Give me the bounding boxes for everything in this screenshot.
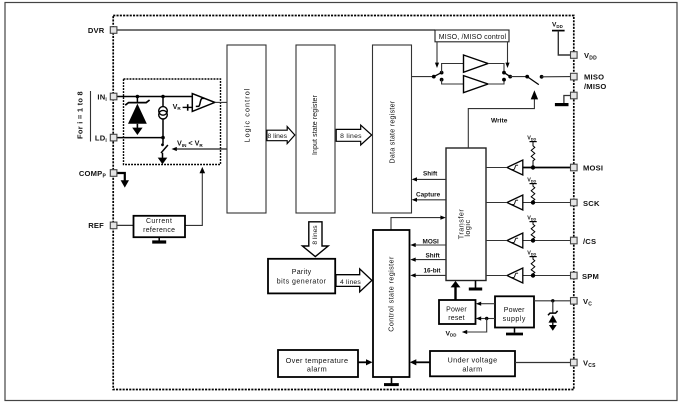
node zener top: [136, 95, 140, 99]
bold arrow power reset to transfer logic: [454, 287, 456, 301]
pad SPM: [571, 272, 578, 279]
selector right: [502, 71, 506, 75]
bus arrow 8 lines (input state register to data state register): [336, 125, 372, 145]
svg-text:reset: reset: [448, 315, 465, 322]
box Parity bits generator: [268, 259, 335, 294]
svg-text:VDD: VDD: [446, 330, 457, 337]
pad /CS: [571, 237, 578, 244]
wire to write switch: [510, 76, 527, 78]
wire data state register to selector: [412, 76, 434, 78]
box Under voltage alarm: [430, 351, 515, 376]
buffer U6: [507, 233, 523, 248]
svg-text:VR: VR: [173, 102, 182, 111]
svg-text:supply: supply: [503, 316, 526, 323]
G-BOTTOM: [134, 216, 571, 385]
block Data state register: [373, 45, 412, 213]
write switch blade: [527, 77, 539, 85]
svg-text:8 lines: 8 lines: [268, 133, 288, 140]
block Control state register: [373, 230, 410, 377]
pad LDi: [110, 134, 117, 141]
svg-text:VDD: VDD: [527, 177, 536, 183]
svg-text:8 lines: 8 lines: [312, 225, 319, 245]
COMP_P stub arrow: [117, 173, 125, 181]
buffer U3 (/MISO): [464, 76, 489, 93]
wire power supply to VC pad: [534, 300, 570, 302]
VR reference bar: [183, 106, 188, 108]
bus arrow 8 lines (logic control to input state register): [267, 127, 295, 144]
pad VDD: [571, 52, 578, 59]
bus arrow 8 lines down (input state register to parity): [302, 222, 328, 257]
selector left: [432, 75, 436, 79]
svg-text:/MISO: /MISO: [584, 82, 607, 91]
G-LEFTLABELS: [76, 26, 436, 230]
channel SCK: [486, 177, 570, 210]
signal Capture: [416, 199, 446, 201]
svg-text:For i = 1 to 8: For i = 1 to 8: [76, 91, 85, 139]
svg-text:Input state register: Input state register: [312, 94, 319, 155]
write control arrow: [468, 99, 534, 149]
svg-text:/CS: /CS: [583, 237, 596, 246]
IC dashed boundary: [113, 16, 574, 390]
pad REF: [110, 222, 117, 229]
svg-text:alarm: alarm: [307, 364, 327, 373]
G-RIGHTBUF input buffers with pull-ups: [486, 135, 570, 283]
svg-text:Control state register: Control state register: [386, 256, 395, 332]
pad MOSI: [571, 164, 578, 171]
ground under transfer logic: [475, 281, 477, 289]
wire power supply to power reset (bottom) with VDD tap: [480, 318, 495, 320]
buffer upper path wire: [442, 64, 464, 73]
svg-text:VC: VC: [583, 297, 592, 308]
svg-text:Power: Power: [446, 306, 467, 313]
signal 16-bit: [415, 274, 446, 276]
box Over temperature alarm: [278, 350, 358, 377]
current reference feed arrow into cell: [186, 172, 203, 225]
svg-text:DVR: DVR: [88, 26, 105, 35]
zener diode D1: [136, 97, 138, 103]
buffer U4: [507, 160, 523, 175]
G-REGISTERS: [227, 45, 486, 289]
pad DVR: [110, 27, 117, 34]
block Input state register: [296, 45, 335, 213]
signal Shift (to control state register): [415, 259, 446, 261]
svg-text:VDD: VDD: [527, 135, 536, 141]
comparator U1: [192, 94, 215, 112]
svg-text:VDD: VDD: [584, 51, 597, 62]
svg-text:alarm: alarm: [462, 364, 482, 373]
svg-text:VIN < VR: VIN < VR: [177, 139, 203, 148]
G-PADS: [110, 27, 606, 369]
wire LD: [117, 137, 163, 139]
svg-text:VDD: VDD: [527, 250, 536, 256]
ground at /MISO aux pad: [564, 96, 570, 104]
svg-text:Parity: Parity: [292, 269, 312, 276]
svg-text:VCS: VCS: [583, 359, 596, 370]
G-CELL input cell dashed box: [117, 79, 227, 225]
node LD junction: [161, 136, 165, 140]
control arrow right: [507, 42, 509, 64]
current source I1: [162, 97, 164, 107]
pad VCS: [571, 359, 578, 366]
svg-text:COMPP: COMPP: [79, 169, 107, 180]
svg-text:LDi: LDi: [95, 133, 108, 144]
right pad labels: [582, 51, 607, 369]
ground under power supply: [514, 328, 516, 333]
wire control state register to transfer logic: [391, 218, 441, 230]
svg-text:8 lines: 8 lines: [340, 133, 362, 140]
zener diode at VC: [552, 301, 554, 313]
switch control arrow from logic control: [176, 148, 227, 150]
wire DVR to MISO control box: [117, 29, 435, 31]
box Power supply: [495, 296, 534, 327]
block Transfer logic: [446, 148, 486, 281]
svg-text:logic: logic: [463, 219, 472, 236]
ground under current reference: [158, 237, 160, 240]
signal MOSI (transfer logic to control state register): [415, 244, 446, 246]
channel /CS: [486, 215, 570, 248]
svg-text:Shift: Shift: [426, 253, 441, 260]
pad MISO: [571, 73, 578, 80]
svg-text:SCK: SCK: [583, 199, 600, 208]
buffer output wires: [488, 64, 504, 73]
svg-text:16-bit: 16-bit: [424, 268, 442, 275]
pad SCK: [571, 199, 578, 206]
switch S1: [162, 138, 164, 144]
svg-text:MOSI: MOSI: [423, 238, 440, 245]
wire buffer to transfer logic: [486, 167, 507, 169]
buffer lower path wire: [442, 80, 464, 84]
box MISO,/MISO control: [435, 30, 509, 42]
svg-text:Data state register: Data state register: [389, 100, 396, 163]
buffer U2 (MISO): [464, 55, 489, 72]
svg-text:REF: REF: [88, 221, 104, 230]
svg-text:Current: Current: [146, 218, 172, 225]
svg-text:MISO: MISO: [584, 73, 604, 82]
svg-text:Write: Write: [491, 117, 508, 124]
svg-text:Logic control: Logic control: [243, 87, 252, 142]
svg-text:bits generator: bits generator: [277, 279, 327, 286]
wire under voltage alarm to VCS pad: [515, 362, 570, 364]
wire REF to current reference: [117, 224, 134, 226]
svg-text:Power: Power: [504, 307, 525, 314]
wire to MISO pad: [542, 76, 570, 78]
arrow over temp to control state register: [358, 361, 367, 363]
channel MOSI: [486, 135, 570, 175]
arrow under voltage to control state register: [415, 361, 430, 363]
svg-text:MISO, /MISO control: MISO, /MISO control: [439, 34, 507, 41]
svg-text:Under voltage: Under voltage: [448, 355, 498, 364]
bus arrow 4 lines: [336, 269, 372, 292]
wire pad to buffer: [523, 167, 570, 169]
svg-text:MOSI: MOSI: [583, 164, 603, 173]
control arrow left: [436, 42, 438, 64]
ground under control state register: [391, 377, 393, 383]
buffer U5: [507, 195, 523, 210]
svg-text:Capture: Capture: [416, 191, 441, 198]
svg-text:VDD: VDD: [527, 215, 536, 221]
pad INi: [110, 93, 117, 100]
box Current reference: [134, 216, 186, 237]
buffer U7: [507, 268, 523, 283]
block Logic control: [227, 45, 266, 213]
pad gnd aux: [571, 92, 578, 99]
channel SPM: [486, 250, 570, 283]
comparator output wire: [215, 101, 227, 103]
svg-text:VDD: VDD: [552, 22, 563, 29]
bracket For i = 1 to 8: [90, 91, 92, 142]
svg-text:4 lines: 4 lines: [340, 279, 361, 286]
cell dashed box: [124, 79, 221, 165]
pad COMPp: [110, 170, 117, 177]
signal Shift (transfer logic to data state register): [416, 178, 446, 180]
wire IN: [117, 96, 192, 98]
G-MISO output section: [412, 22, 571, 148]
node current source top: [161, 95, 165, 99]
svg-text:INi: INi: [97, 92, 107, 103]
svg-text:SPM: SPM: [582, 272, 599, 281]
wire power supply to power reset (top): [480, 303, 495, 305]
svg-text:reference: reference: [143, 227, 175, 234]
svg-text:Shift: Shift: [423, 170, 438, 177]
pad VC: [571, 298, 578, 305]
box Power reset: [439, 300, 476, 324]
